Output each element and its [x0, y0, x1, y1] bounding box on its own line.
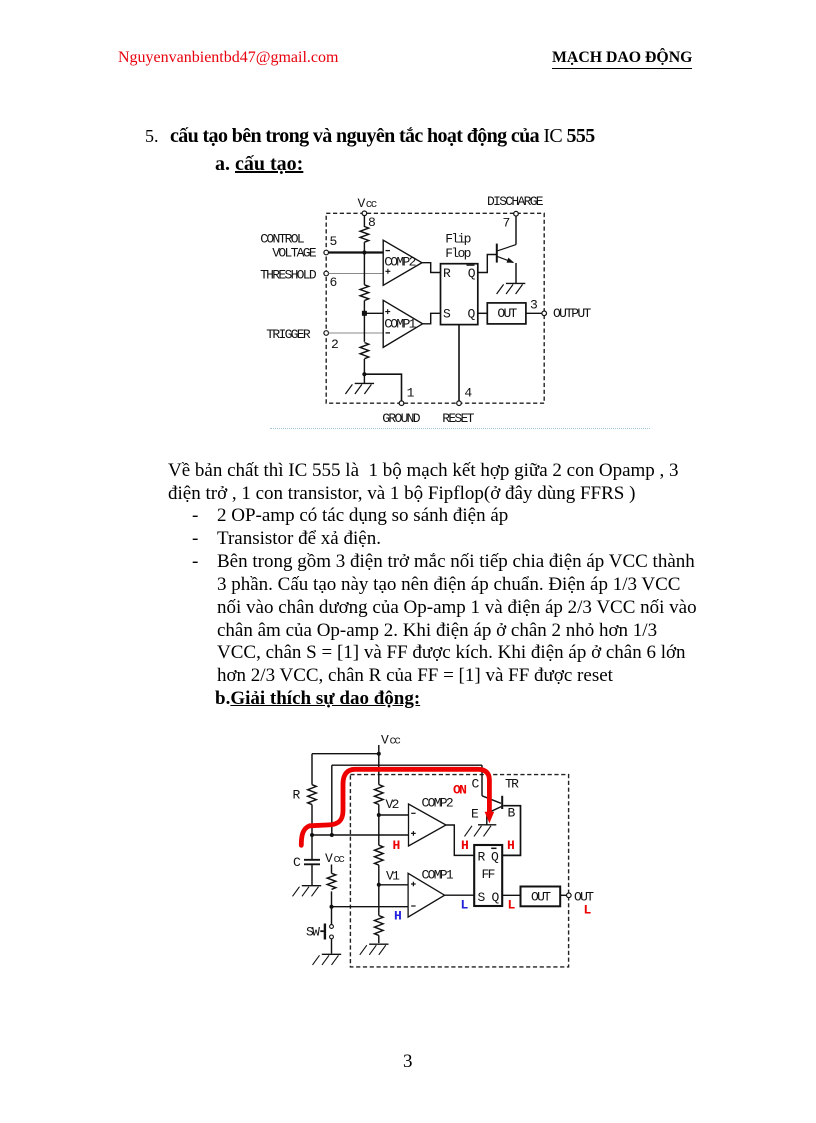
wire pin2 to COMP1 inverting input (thin gray): [329, 332, 384, 334]
svg-text:SW: SW: [306, 925, 320, 940]
heading 5: [145, 126, 159, 147]
output buffer OUT box: [521, 887, 561, 907]
schematic 2: astable oscillation explanation diagram: [283, 727, 603, 977]
ground symbol (switch): [313, 954, 342, 965]
svg-text:4: 4: [464, 386, 472, 401]
resistor R1 (divider top): [360, 227, 369, 254]
svg-text:COMP1: COMP1: [422, 868, 454, 883]
wire COMP1 output to FF S input: [445, 894, 475, 896]
wire node to COMP1 minus input: [332, 906, 409, 908]
output terminal: [567, 890, 595, 905]
svg-text:GROUND: GROUND: [382, 411, 421, 426]
resistor (switch branch): [327, 865, 336, 907]
wire divider mid segment: [363, 253, 365, 285]
svg-text:H: H: [507, 838, 514, 853]
wire COMP1 output to FF S input: [423, 313, 441, 324]
wire COMP2 output to FF R input: [422, 263, 441, 273]
svg-text:2: 2: [331, 337, 338, 352]
red label H (FF R wire): [461, 838, 468, 853]
op-amp COMP1: [408, 868, 454, 918]
svg-text:5: 5: [329, 234, 336, 249]
op-amp COMP2: [383, 240, 422, 285]
paragraph: [168, 459, 679, 482]
svg-text:TRIGGER: TRIGGER: [266, 327, 311, 342]
node V1: [377, 869, 400, 887]
svg-text:V1: V1: [386, 869, 400, 884]
ground symbol (divider): [360, 944, 389, 955]
header title: [552, 49, 692, 69]
svg-text:H: H: [394, 909, 401, 924]
Vcc pin 8 terminal: [358, 196, 377, 230]
svg-text:Flip: Flip: [445, 232, 470, 247]
red label L (output): [584, 903, 592, 918]
label CONTROL VOLTAGE: [260, 232, 317, 261]
wire OUT box to pin 3: [526, 298, 542, 314]
node: pin5 junction dot: [362, 250, 366, 254]
svg-text:V2: V2: [386, 797, 399, 812]
svg-text:7: 7: [502, 216, 509, 231]
schematic 1: internal block diagram of IC 555: [250, 192, 600, 432]
svg-text:L: L: [461, 898, 469, 913]
pin 4 RESET wire: [458, 325, 460, 401]
red label L (FF Q output): [508, 898, 516, 913]
red feedback path curve: [301, 769, 494, 845]
svg-text:V: V: [358, 196, 366, 211]
resistor R: [293, 785, 317, 835]
header email: [118, 49, 338, 67]
transistor TR: [482, 765, 502, 825]
capacitor C: [293, 835, 320, 886]
node switch junction: [330, 905, 334, 909]
wire COMP2 output to FF R input: [446, 825, 474, 855]
wire node to GROUND pin 1: [364, 374, 401, 401]
svg-text:3: 3: [530, 298, 537, 313]
divider resistor top: [374, 754, 383, 815]
red label ON: [453, 783, 466, 798]
svg-text:OUTPUT: OUTPUT: [553, 306, 592, 321]
svg-text:V: V: [381, 733, 389, 748]
svg-text:cc: cc: [366, 199, 377, 211]
ground symbol (transistor emitter): [465, 825, 497, 837]
red label H (COMP2 plus): [393, 838, 400, 853]
svg-text:R: R: [293, 788, 301, 803]
Vcc supply label: [379, 733, 401, 754]
svg-text:ON: ON: [453, 783, 466, 798]
svg-text:L: L: [584, 903, 592, 918]
IC555 boundary dashed box: [326, 213, 544, 403]
label THRESHOLD: [260, 268, 317, 283]
flip-flop FF box: [441, 232, 478, 325]
svg-text:OUT: OUT: [497, 306, 517, 321]
pin 1 GROUND terminal: [382, 386, 421, 426]
wire Vcc to R1: [363, 216, 365, 227]
svg-text:THRESHOLD: THRESHOLD: [260, 268, 317, 283]
wire node to COMP2 plus input: [312, 834, 409, 836]
svg-text:OUT: OUT: [531, 890, 551, 905]
wire V1 to COMP1 plus input: [379, 884, 408, 886]
pin 5 CONTROL VOLTAGE terminal: [324, 234, 337, 255]
switch SW: [306, 907, 333, 954]
pin 7 DISCHARGE terminal: [487, 194, 544, 231]
divider resistor middle: [374, 815, 383, 885]
wire pin6 to COMP2 non-inverting input (thin gray): [329, 273, 384, 275]
svg-text:H: H: [461, 838, 468, 853]
wire OUT box to output terminal: [560, 894, 566, 896]
node: ground junction dot: [362, 372, 366, 376]
op-amp COMP1: [383, 300, 422, 347]
label TRIGGER: [266, 327, 311, 342]
svg-text:cc: cc: [334, 854, 345, 866]
svg-text:E: E: [471, 807, 479, 822]
wire transistor base to FF: [503, 806, 521, 856]
svg-text:TR: TR: [505, 777, 519, 792]
svg-text:CONTROL: CONTROL: [260, 232, 304, 247]
svg-text:FF: FF: [482, 867, 495, 882]
wire upper feedback branch: [332, 765, 482, 835]
svg-text:COMP2: COMP2: [384, 255, 415, 270]
resistor R3 (divider bottom): [360, 343, 369, 375]
svg-text:L: L: [508, 898, 516, 913]
pin 2 TRIGGER terminal: [324, 331, 338, 352]
svg-text:C: C: [472, 777, 480, 792]
svg-text:6: 6: [329, 275, 336, 290]
ground symbol (divider): [345, 374, 374, 394]
svg-text:RESET: RESET: [442, 411, 474, 426]
pin 6 THRESHOLD terminal: [324, 271, 337, 290]
pin 4 RESET terminal: [442, 386, 474, 426]
output buffer OUT box: [487, 303, 526, 324]
red label H (FF right): [507, 838, 514, 853]
transistor Q1 discharge: [497, 216, 516, 284]
blue label H (COMP1 minus): [394, 909, 401, 924]
svg-text:1: 1: [407, 386, 415, 401]
wire FF Q to OUT box: [503, 894, 521, 896]
wire FF Q to OUT box: [478, 312, 488, 314]
op-amp COMP2: [409, 796, 453, 847]
svg-text:Flop: Flop: [445, 246, 470, 261]
flip-flop FF box: [474, 845, 502, 906]
page number: [403, 1051, 413, 1073]
blue dotted line: [270, 428, 650, 429]
wire V2 to COMP2 minus input: [379, 814, 409, 816]
wire junction to COMP1 non-inverting input: [364, 312, 383, 314]
pin 3 OUTPUT terminal: [542, 306, 592, 321]
svg-text:H: H: [393, 838, 400, 853]
ground symbol (transistor emitter): [497, 283, 526, 294]
wire FF Qbar to transistor base: [478, 255, 497, 273]
svg-text:COMP1: COMP1: [384, 316, 416, 331]
transistor TR labels: [471, 777, 519, 822]
svg-text:DISCHARGE: DISCHARGE: [487, 194, 544, 209]
node: square junction to COMP1: [362, 311, 367, 316]
Vcc label (switch branch): [325, 851, 344, 866]
svg-text:COMP2: COMP2: [422, 796, 453, 811]
wire pin5 to COMP2 inverting input (thick): [329, 251, 384, 253]
node Vcc junction: [377, 752, 381, 756]
svg-text:B: B: [508, 806, 516, 821]
wire Vcc to R branch: [312, 754, 379, 785]
svg-text:C: C: [293, 855, 301, 870]
divider resistor bottom: [374, 885, 383, 943]
svg-text:VOLTAGE: VOLTAGE: [272, 246, 317, 261]
ground symbol (capacitor): [293, 886, 322, 897]
svg-text:cc: cc: [390, 736, 401, 748]
blue label L (COMP1 output): [461, 898, 469, 913]
resistor R2 (divider middle): [360, 285, 369, 314]
IC boundary dashed box: [350, 775, 568, 967]
wire divider bottom segment: [363, 313, 365, 342]
node R-C junction: [310, 833, 334, 837]
svg-text:V: V: [325, 851, 333, 866]
node V2: [377, 797, 399, 817]
